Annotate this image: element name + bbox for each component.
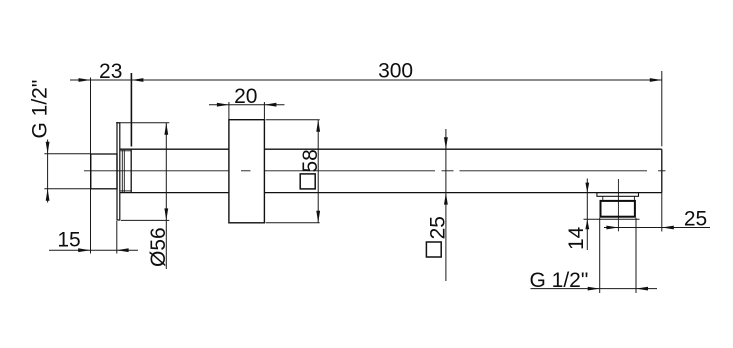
dimension G 1/2 left (nipple thread) xyxy=(47,140,49,203)
arrow 23 left xyxy=(79,78,91,82)
outlet collar disc xyxy=(597,193,639,197)
dimension 15 (nipple projection) xyxy=(49,249,138,251)
extension line block left xyxy=(228,102,230,120)
arrow 23 right / 300 left xyxy=(131,78,143,82)
square slide block on arm xyxy=(229,120,265,223)
extension line flange left face xyxy=(116,221,118,254)
arrow 25 right at arm end xyxy=(662,226,674,230)
arrow G12 bottom left xyxy=(588,287,600,291)
svg-text:G 1/2": G 1/2" xyxy=(28,80,51,139)
label square symbol of 58 xyxy=(300,174,315,189)
extension line nipple bottom xyxy=(44,188,90,190)
wire: extension line left face of nipple (x=90.5) xyxy=(90,78,92,254)
svg-text:25: 25 xyxy=(426,216,449,239)
dimension G 1/2 bottom (outlet thread) xyxy=(531,288,658,290)
arrow 15 right xyxy=(117,248,129,252)
arrow 58 top xyxy=(316,120,320,132)
arrow G12 left bottom xyxy=(46,189,50,201)
dimension 25 right (outlet offset) xyxy=(604,227,710,229)
arm tube bottom edge xyxy=(120,192,662,194)
extension line thread bottom xyxy=(584,218,640,220)
threaded wall nipple G 1/2 xyxy=(91,154,117,189)
arrow 14 bottom xyxy=(585,219,589,229)
label square symbol of 25 xyxy=(426,242,441,257)
arm end edge xyxy=(661,149,663,192)
arrow 25 left at centerline xyxy=(606,226,618,230)
dimension diameter 56 (flange) xyxy=(165,123,167,269)
extension line thread right xyxy=(635,218,637,293)
svg-text:14: 14 xyxy=(565,226,588,250)
extension line block right xyxy=(263,102,265,120)
outlet neck right line xyxy=(633,196,635,201)
centerline horizontal axis of arm (y=170.8) xyxy=(84,170,666,172)
arrow 15 left xyxy=(78,248,90,252)
arrow 58 bottom xyxy=(316,211,320,223)
wall flange plate xyxy=(117,123,120,220)
wire: extension line arm right end above (x=661.8) xyxy=(661,71,663,146)
arrow 20 right xyxy=(264,103,276,107)
arm tube top edge xyxy=(120,148,662,150)
boss ring line 1 xyxy=(121,150,123,192)
arrow d56 bottom xyxy=(164,208,168,220)
extension line block top right xyxy=(266,119,320,121)
boss inner bottom edge xyxy=(121,190,132,192)
boss ring line 2 xyxy=(123,150,125,192)
svg-text:25: 25 xyxy=(684,208,707,231)
arrow G12 bottom right xyxy=(636,287,648,291)
dimension 14 (outlet depth) xyxy=(586,179,588,251)
outlet neck left line xyxy=(602,196,604,201)
svg-text:15: 15 xyxy=(57,229,80,252)
arrow 300 right xyxy=(650,78,662,82)
dimension line 23 and 300 (y=80) xyxy=(70,79,662,81)
wire: extension line wall plane / boss end (x=131.4) xyxy=(130,73,132,147)
extension line flange bottom xyxy=(121,219,169,221)
arrow sq25 top xyxy=(444,137,448,149)
arrow 20 left xyxy=(217,103,229,107)
svg-text:Ø56: Ø56 xyxy=(147,227,170,267)
outlet thread body G 1/2 xyxy=(601,201,635,217)
boss end edge xyxy=(130,149,132,192)
wire: extension line arm right end below tube xyxy=(661,193,663,232)
arrow d56 top xyxy=(164,123,168,135)
svg-text:300: 300 xyxy=(378,60,413,83)
svg-text:58: 58 xyxy=(299,149,322,172)
extension line block bottom right xyxy=(266,222,320,224)
centerline dash inside block xyxy=(241,170,251,172)
dimension square 25 (tube section) xyxy=(445,129,447,281)
extension line flange top xyxy=(116,122,169,124)
dimension 20 (block width) xyxy=(209,104,285,106)
arrow G12 left top xyxy=(46,142,50,154)
svg-text:G 1/2": G 1/2" xyxy=(530,269,589,292)
arrow 14 top xyxy=(585,183,589,193)
arrow sq25 bottom xyxy=(444,193,448,205)
svg-text:20: 20 xyxy=(234,85,257,108)
boss inner top edge xyxy=(121,150,132,152)
extension line thread left xyxy=(599,218,601,293)
dimension 58 (block height) xyxy=(317,120,319,223)
svg-text:23: 23 xyxy=(99,60,122,83)
centerline vertical axis of outlet (x=618.4) xyxy=(617,179,619,231)
extension line nipple top xyxy=(44,153,90,155)
